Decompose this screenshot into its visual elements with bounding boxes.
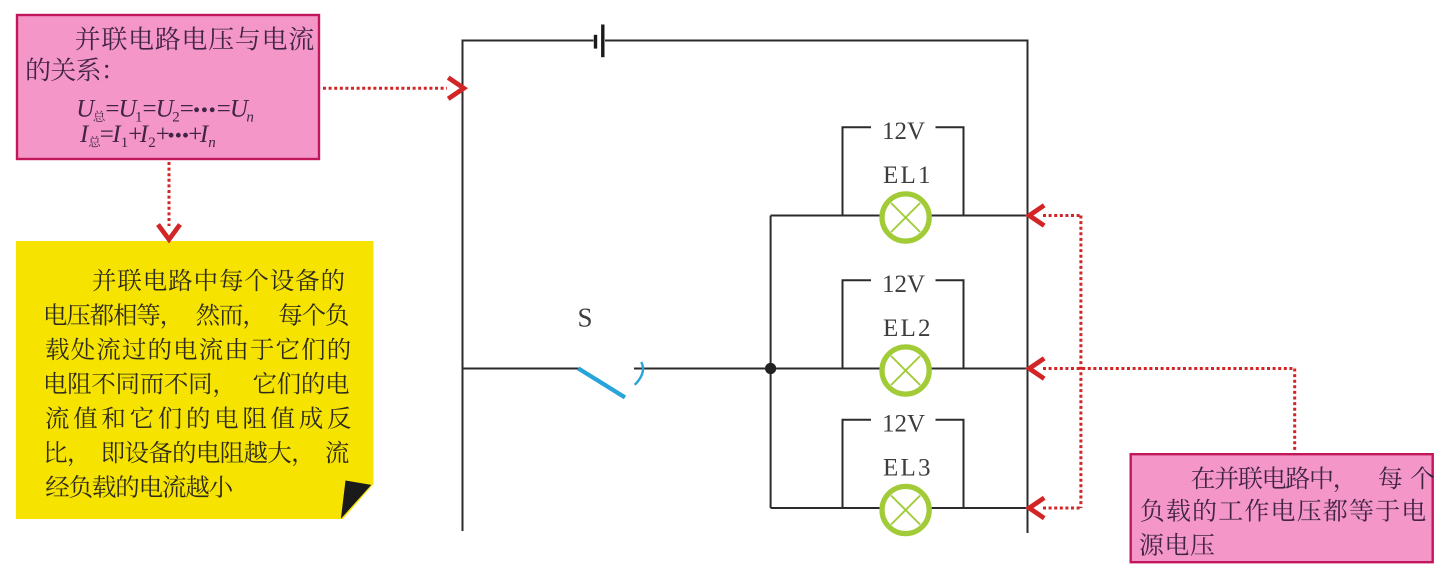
leader net: lamp voltages xyxy=(1043,216,1295,509)
wire: EL1 branch xyxy=(771,215,1028,217)
svg-text:EL2: EL2 xyxy=(883,315,933,342)
callout1 text line2 xyxy=(27,57,108,81)
callout box: relation of voltage and current in parallel circuit xyxy=(17,15,319,159)
svg-text:S: S xyxy=(578,302,593,332)
svg-text:2: 2 xyxy=(148,135,156,151)
note text line1 xyxy=(93,269,344,292)
wire: right bus xyxy=(1027,40,1029,534)
svg-text:EL3: EL3 xyxy=(883,454,933,481)
svg-text:+: + xyxy=(156,121,170,148)
svg-text:=: = xyxy=(217,96,231,123)
lamp EL2 xyxy=(882,347,929,394)
leader: callout1 to left bus xyxy=(323,87,447,90)
callout box: each load voltage equals source voltage xyxy=(1131,454,1433,562)
svg-text:1: 1 xyxy=(121,135,129,151)
leader: callout1 down to note xyxy=(168,162,171,226)
voltage bracket 12V for EL1 xyxy=(842,127,965,215)
folded corner xyxy=(341,481,371,519)
arrowhead left at EL level 216 xyxy=(1029,205,1044,225)
svg-text:n: n xyxy=(208,135,216,151)
junction node xyxy=(765,363,776,374)
voltage bracket 12V for EL2 xyxy=(842,280,965,368)
svg-text:=: = xyxy=(143,96,157,123)
switch S blade (blue, open) xyxy=(578,368,625,397)
svg-text:=: = xyxy=(180,96,194,123)
note text line4 xyxy=(46,372,349,397)
wire: lamp bus vertical xyxy=(770,216,772,509)
note text line3 xyxy=(46,337,350,360)
wire: top right segment xyxy=(605,40,1028,42)
wire: EL2 branch xyxy=(771,368,1028,370)
svg-text:12V: 12V xyxy=(882,118,925,145)
svg-text:U: U xyxy=(76,96,96,123)
arrowhead left at EL level 508 xyxy=(1029,498,1044,518)
wire: left bus xyxy=(462,40,464,532)
svg-text:12V: 12V xyxy=(882,271,925,298)
voltage bracket 12V for EL3 xyxy=(842,420,965,508)
svg-text:n: n xyxy=(246,110,254,126)
svg-text:EL1: EL1 xyxy=(883,162,933,189)
lamp EL3 xyxy=(882,486,929,533)
arrowhead down at note xyxy=(158,225,180,240)
switch S travel arc xyxy=(635,362,643,385)
arrowhead right at left bus xyxy=(448,78,464,99)
formula I total xyxy=(79,121,216,151)
svg-text:=: = xyxy=(105,96,119,123)
arrowhead left at EL level 368 xyxy=(1029,358,1044,378)
battery GB long plate xyxy=(601,25,604,58)
svg-text:2: 2 xyxy=(172,110,180,126)
note: yellow sticky xyxy=(16,241,374,519)
svg-text:12V: 12V xyxy=(882,410,925,437)
leader riser to callout2 xyxy=(1293,369,1296,453)
wire: switch feed xyxy=(463,368,579,370)
note text line2 xyxy=(46,303,348,329)
battery GB short plate xyxy=(594,35,597,49)
lamp EL1 xyxy=(882,194,929,241)
note text line6 xyxy=(46,441,349,467)
wire: switch to junction xyxy=(634,368,771,370)
formula U total xyxy=(76,96,254,126)
callout2 text line1 xyxy=(1191,466,1434,492)
callout1 text line1 xyxy=(76,26,314,50)
callout2 text line2 xyxy=(1141,499,1426,522)
wire: top left segment xyxy=(463,40,594,42)
wire: EL3 branch xyxy=(771,507,1028,509)
callout2 text line3 xyxy=(1140,533,1214,556)
note text line5 xyxy=(46,406,351,429)
note text line7 xyxy=(46,475,232,498)
